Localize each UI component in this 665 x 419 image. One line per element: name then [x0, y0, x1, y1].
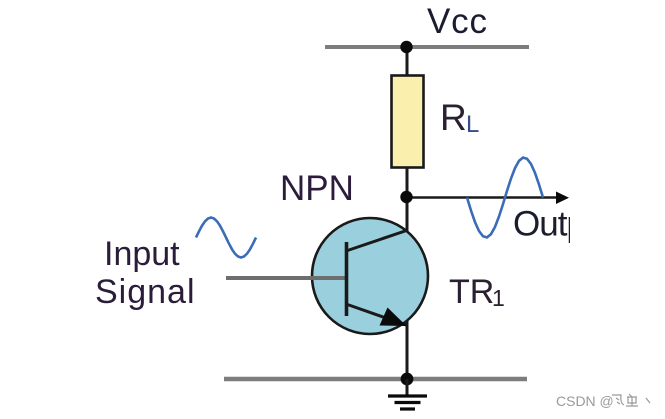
svg-text:Vcc: Vcc [427, 2, 488, 41]
node collector [400, 191, 412, 203]
resistor RL [392, 76, 424, 168]
svg-text:Input: Input [104, 235, 180, 273]
collector diagonal [346, 230, 408, 251]
watermark glyph yu [626, 394, 638, 406]
ground bar 3 [400, 407, 415, 410]
label Output (clipped) [513, 205, 585, 244]
base wire [226, 276, 346, 280]
ground bar 2 [395, 401, 421, 404]
emitter diagonal [346, 304, 406, 325]
wire collector-emitter vertical [406, 197, 409, 379]
svg-text:CSDN @: CSDN @ [556, 393, 614, 409]
input sine wave [196, 218, 256, 258]
svg-text:Outp: Outp [513, 205, 585, 244]
ground rail [224, 377, 527, 381]
transistor TR1 circle [312, 218, 428, 334]
Vcc rail [325, 45, 529, 49]
output wire [407, 196, 558, 198]
wire Vcc to resistor [406, 47, 409, 78]
svg-text:R: R [440, 97, 467, 138]
emitter arrowhead [380, 308, 407, 327]
node Vcc [400, 41, 412, 53]
watermark glyph fei [612, 394, 650, 406]
svg-text:L: L [466, 111, 479, 138]
node ground [401, 373, 414, 386]
ground stem [406, 379, 409, 396]
output arrowhead [556, 192, 569, 205]
base bar [345, 242, 349, 316]
svg-text:1: 1 [492, 285, 505, 311]
watermark glyph dot [646, 398, 650, 403]
wire resistor to collector node [406, 167, 409, 199]
svg-text:TR: TR [449, 273, 494, 311]
svg-text:Signal: Signal [95, 273, 196, 311]
output sine wave [467, 158, 543, 238]
svg-text:NPN: NPN [280, 169, 354, 208]
ground bar 1 [388, 394, 427, 397]
